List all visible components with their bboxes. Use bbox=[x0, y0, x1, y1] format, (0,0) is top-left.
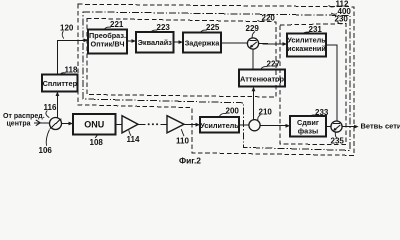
wire 229 to 231 bbox=[259, 43, 283, 45]
leader 220 bbox=[258, 20, 264, 21]
svg-text:221: 221 bbox=[110, 20, 124, 29]
leader 110 bbox=[181, 129, 184, 136]
svg-text:223: 223 bbox=[157, 23, 171, 32]
leader 233 bbox=[310, 115, 316, 116]
amplifier 114 bbox=[122, 116, 138, 133]
block 108 ONU bbox=[73, 114, 116, 135]
wire 225 to coupler 229 bbox=[221, 42, 247, 44]
wire tap116 up to splitter bbox=[56, 92, 58, 118]
svg-text:120: 120 bbox=[60, 24, 74, 33]
leader 229 bbox=[252, 32, 255, 38]
svg-text:Эквалайз: Эквалайз bbox=[138, 38, 172, 47]
leader 114 bbox=[129, 130, 131, 136]
svg-text:118: 118 bbox=[65, 66, 78, 75]
tap 116 (circle with slash) bbox=[50, 118, 62, 130]
wire 233 to coupler 235 bbox=[326, 125, 331, 127]
svg-text:227: 227 bbox=[267, 60, 281, 69]
svg-text:ONU: ONU bbox=[84, 120, 104, 130]
block 221 converter Optic/RF bbox=[88, 30, 127, 54]
frame 220 (dashed box, upper chain) bbox=[87, 18, 276, 97]
coupler 229 (circle with chord and arrow) bbox=[247, 38, 258, 49]
wire 114 to 110 with break dots bbox=[138, 123, 145, 125]
block 227 attenuator bbox=[239, 70, 285, 87]
svg-text:От распред.: От распред. bbox=[3, 113, 45, 120]
block 118 splitter bbox=[42, 75, 78, 92]
coupler 235 (circle with chord and arrow) bbox=[331, 121, 342, 132]
svg-text:116: 116 bbox=[44, 103, 57, 112]
svg-text:Усилитель: Усилитель bbox=[200, 121, 239, 130]
svg-text:230: 230 bbox=[335, 15, 349, 24]
svg-text:231: 231 bbox=[309, 25, 323, 34]
leader 106 bbox=[46, 130, 49, 146]
svg-text:Аттенюатор: Аттенюатор bbox=[240, 74, 285, 83]
wire 110 to amplifier 200 bbox=[184, 123, 196, 125]
svg-text:235: 235 bbox=[331, 137, 345, 146]
svg-text:фазы: фазы bbox=[298, 126, 318, 135]
block 200 amplifier bbox=[200, 117, 239, 133]
leader 108 bbox=[95, 135, 98, 138]
wire 210 to phase shifter 233 bbox=[260, 124, 286, 126]
svg-text:центра: центра bbox=[7, 120, 31, 127]
svg-text:Оптик/ВЧ: Оптик/ВЧ bbox=[91, 39, 125, 48]
leader 227 bbox=[261, 67, 268, 70]
leader 231 bbox=[303, 32, 310, 34]
wire 223 to 225 bbox=[174, 41, 179, 43]
block 225 delay bbox=[183, 33, 221, 53]
svg-text:110: 110 bbox=[176, 136, 189, 145]
block 233 phase shifter bbox=[290, 116, 326, 137]
block 223 equalizer bbox=[136, 32, 174, 53]
wire combiner 210 up to attenuator 227 bbox=[253, 91, 255, 120]
svg-text:106: 106 bbox=[39, 146, 53, 155]
leader 225 bbox=[200, 30, 207, 33]
svg-text:200: 200 bbox=[226, 106, 240, 115]
svg-text:229: 229 bbox=[246, 24, 260, 33]
svg-text:233: 233 bbox=[315, 108, 329, 117]
leader 118 bbox=[60, 73, 65, 75]
wire 229 down to attenuator 227 bbox=[252, 49, 254, 69]
leader 400 bbox=[331, 13, 337, 14]
svg-text:Задержка: Задержка bbox=[185, 39, 221, 48]
leader 235 bbox=[335, 133, 337, 139]
frame 230 (dashed box, right section) bbox=[280, 24, 346, 145]
svg-text:искажений: искажений bbox=[287, 44, 326, 53]
combiner 210 (plain circle) bbox=[249, 120, 260, 131]
wire tap116 to ONU bbox=[62, 122, 69, 124]
wire input from distribution center bbox=[34, 122, 50, 124]
leader 112 bbox=[329, 5, 335, 7]
amplifier 110 bbox=[167, 116, 184, 133]
leader 116 bbox=[46, 111, 49, 118]
leader 230 bbox=[338, 22, 343, 24]
svg-text:225: 225 bbox=[206, 23, 220, 32]
svg-text:Сплиттер: Сплиттер bbox=[43, 79, 78, 88]
frame 400 (dash-dot box) bbox=[83, 12, 350, 151]
frame 112 (outer dashed box) bbox=[78, 4, 354, 155]
block 231 distortion amplifier bbox=[287, 34, 326, 57]
wire 221 to 223 bbox=[127, 40, 132, 42]
wire ONU to amplifier 114 bbox=[116, 123, 123, 125]
leader 221 bbox=[104, 27, 111, 29]
leader 223 bbox=[151, 30, 158, 32]
wire splitter to converter 221 with label 120 bbox=[58, 40, 84, 74]
leader 200 bbox=[219, 113, 226, 116]
leader 210 bbox=[258, 115, 261, 120]
wire 231 down to coupler 235 bbox=[326, 45, 337, 121]
svg-text:Ветвь сети: Ветвь сети bbox=[361, 122, 400, 131]
svg-text:Фиг.2: Фиг.2 bbox=[179, 156, 201, 166]
svg-text:108: 108 bbox=[90, 138, 104, 147]
wire 235 to network branch output bbox=[342, 126, 354, 128]
wire 200 to combiner 210 bbox=[239, 124, 249, 126]
leader 120 bbox=[62, 31, 64, 38]
svg-text:114: 114 bbox=[127, 135, 140, 144]
